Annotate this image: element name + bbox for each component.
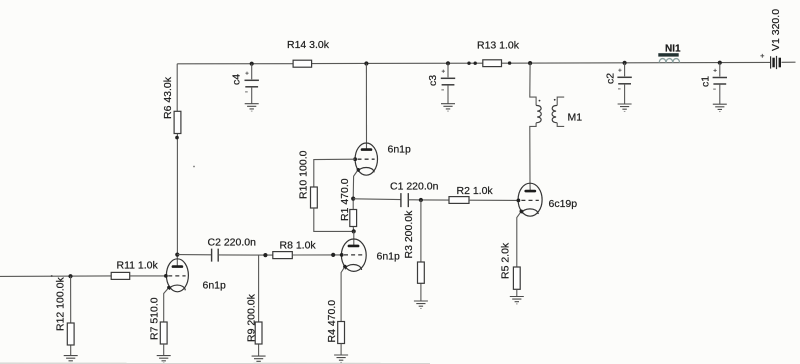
svg-text:c2: c2 [605, 73, 617, 84]
ground below c1 [713, 104, 727, 111]
ground below c4 [245, 104, 259, 111]
resistor R2 1.0k to 6c19p grid [449, 197, 518, 204]
battery V1 320.0 [760, 54, 779, 69]
svg-text:R3 200.0k: R3 200.0k [403, 210, 415, 259]
svg-text:c3: c3 [427, 75, 439, 86]
tube U3 6n1p second stage [340, 231, 366, 321]
resistor R13 1.0k [483, 60, 502, 67]
scan artifact: faint bottom edge streak [0, 362, 430, 364]
transformer M1 secondary top lead [557, 97, 564, 105]
inductor NI1 core bar [658, 53, 678, 56]
svg-text:R14 3.0k: R14 3.0k [287, 39, 330, 51]
svg-text:6n1p: 6n1p [377, 250, 401, 262]
node: small dot after R13 [508, 61, 511, 64]
svg-text:6n1p: 6n1p [203, 279, 227, 291]
svg-text:6n1p: 6n1p [388, 143, 412, 155]
capacitor c3 electrolytic to ground [441, 63, 455, 103]
transformer M1 primary lead to 6c19p plate [530, 123, 536, 184]
transformer M1 secondary winding [552, 105, 557, 122]
capacitor C2 220.0n coupling [177, 249, 272, 262]
capacitor C1 220.0n coupling [353, 193, 449, 207]
svg-text:R12 100.0k: R12 100.0k [54, 277, 66, 331]
svg-text:C2 220.0n: C2 220.0n [208, 236, 257, 248]
wire: top rail R14 to upper-tube plate junction to c3 junction to R13 [312, 62, 483, 64]
node: junction dot at M1 tap [528, 61, 532, 65]
node: junction dot at c3 tap [446, 61, 450, 65]
svg-text:R8 1.0k: R8 1.0k [280, 239, 317, 251]
node: faint speck on input wire [51, 275, 53, 277]
svg-text:R11 1.0k: R11 1.0k [117, 260, 159, 272]
svg-text:R7 510.0: R7 510.0 [149, 297, 161, 340]
transformer M1 secondary bottom lead [557, 123, 564, 127]
resistor R14 3.0k [293, 60, 312, 67]
svg-text:C1 220.0n: C1 220.0n [390, 180, 439, 192]
node: junction dot cathode/C1/R1 [351, 197, 355, 201]
wire: top B+ rail left segment from R6 corner to R14 [177, 63, 293, 65]
resistor R9 200.0k to ground [255, 255, 262, 356]
node: junction dot C1/R3 [419, 198, 423, 202]
wire: input line at left edge [0, 275, 111, 278]
resistor R1 470.0 (between upper cathode and lower plate) [350, 199, 357, 232]
resistor R5 2.0k to ground [513, 267, 520, 296]
tube U1 6n1p input triode [164, 255, 189, 323]
svg-text:R5 2.0k: R5 2.0k [499, 242, 511, 279]
svg-text:R4 470.0: R4 470.0 [326, 300, 338, 343]
node: faint speck above tube [193, 166, 195, 168]
node: junction dot R1/R10/lower plate [352, 229, 356, 233]
node: junction dot at c4 tap [250, 62, 254, 66]
node: junction dot at upper tube plate [364, 61, 368, 65]
resistor R7 510.0 to ground [160, 322, 167, 356]
svg-text:V1 320.0: V1 320.0 [770, 9, 782, 51]
capacitor c1 electrolytic to ground [713, 63, 727, 104]
ground below c2 [618, 104, 632, 111]
svg-text:c4: c4 [231, 74, 243, 85]
ground below R3 [414, 301, 428, 308]
transformer M1 primary lead from rail [530, 63, 536, 105]
svg-text:NI1: NI1 [665, 43, 681, 54]
node: junction dot input/R12 [68, 274, 72, 278]
node: dot on grid wire [331, 253, 335, 257]
ground below R9 [252, 356, 266, 363]
node: small dot pair before R13 [467, 62, 470, 65]
capacitor c2 electrolytic to ground [617, 63, 631, 104]
svg-text:R13 1.0k: R13 1.0k [477, 40, 520, 52]
resistor R4 470.0 to ground [338, 322, 345, 355]
ground below R5 [510, 297, 524, 304]
resistor R11 1.0k to first grid [111, 272, 166, 279]
svg-text:R9 200.0k: R9 200.0k [245, 293, 257, 342]
svg-text:R6 43.0k: R6 43.0k [162, 76, 174, 119]
resistor R3 200.0k to ground [418, 200, 425, 301]
capacitor c4 electrolytic to ground [245, 64, 259, 104]
svg-text:R10 100.0: R10 100.0 [297, 150, 309, 199]
node: junction dot at c1 tap [718, 61, 722, 65]
node: junction dot plate/C2 [175, 253, 179, 257]
svg-text:c1: c1 [700, 76, 712, 87]
ground below c3 [441, 104, 455, 111]
svg-text:R2 1.0k: R2 1.0k [457, 185, 494, 197]
svg-text:M1: M1 [568, 112, 583, 124]
tube U2 6n1p upper (SRPP top) [353, 64, 377, 199]
ground below R12 [64, 356, 78, 363]
resistor R6 43.0k vertical with feed wire [174, 64, 181, 255]
tube U4 6c19p power triode [517, 183, 543, 267]
resistor R10 100.0 with grid wire to upper tube [311, 159, 356, 231]
node: junction dot at c2 tap [623, 61, 627, 65]
svg-text:R1 470.0: R1 470.0 [339, 178, 351, 221]
transformer M1 primary winding [536, 105, 541, 122]
transformer M1 phase dots [539, 100, 541, 102]
resistor R12 100.0k to ground [67, 276, 74, 355]
resistor R8 1.0k to second grid [273, 252, 342, 259]
node: junction dot C2/R8/R9 [263, 253, 267, 257]
svg-text:6c19p: 6c19p [549, 198, 578, 210]
ground below R7 [157, 356, 171, 363]
node: dot below R6 [175, 136, 179, 140]
inductor NI1 winding arcs [659, 59, 679, 63]
wire: top rail right end after battery V1 [782, 61, 796, 63]
wire: top rail R13 to M1 junction to c2 to NI1 to c1 to battery [502, 61, 771, 64]
ground below R4 [334, 355, 348, 362]
